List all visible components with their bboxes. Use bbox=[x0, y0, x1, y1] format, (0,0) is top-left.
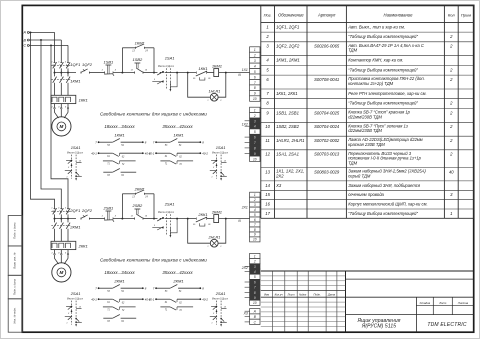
svg-text:S00704-0025: S00704-0025 bbox=[314, 110, 340, 115]
wire bbox=[207, 218, 214, 220]
svg-text:2SB1: 2SB1 bbox=[103, 205, 114, 210]
svg-text:1SB2, 2SB2: 1SB2, 2SB2 bbox=[276, 124, 299, 129]
svg-text:S00708-0041: S00708-0041 bbox=[314, 77, 339, 82]
wire bbox=[89, 72, 104, 74]
svg-text:40: 40 bbox=[449, 169, 454, 174]
contactor coil 2КМ1 bbox=[214, 215, 219, 223]
svg-text:40-1: 40-1 bbox=[149, 298, 155, 302]
svg-text:1QF1: 1QF1 bbox=[70, 62, 80, 67]
motor М1 bbox=[52, 117, 71, 136]
svg-text:1КК1: 1КК1 bbox=[79, 97, 88, 102]
svg-text:6: 6 bbox=[254, 136, 256, 140]
svg-text:d22мм/230В ТДМ: d22мм/230В ТДМ bbox=[348, 128, 382, 133]
signal lamp 1HLR1 bbox=[188, 73, 211, 98]
svg-text:3: 3 bbox=[254, 119, 256, 123]
svg-text:контакты 2з+2р) ТДМ: контакты 2з+2р) ТДМ bbox=[348, 81, 393, 86]
svg-text:14: 14 bbox=[265, 183, 270, 188]
svg-text:S00803-0029: S00803-0029 bbox=[314, 169, 340, 174]
svg-text:Дата: Дата bbox=[327, 292, 336, 296]
wire bbox=[207, 72, 214, 74]
svg-text:18хххх...34хххх: 18хххх...34хххх bbox=[104, 270, 135, 275]
svg-text:1Х1: 1Х1 bbox=[242, 68, 248, 72]
svg-text:Кол.уч: Кол.уч bbox=[275, 292, 284, 296]
svg-text:Контактор КМН, хар-ки см.: Контактор КМН, хар-ки см. bbox=[348, 58, 403, 63]
title block right part lines bbox=[346, 278, 474, 280]
thermal relay 1КК1 bbox=[51, 95, 76, 103]
svg-text:Стадия: Стадия bbox=[420, 301, 431, 305]
motor М2 bbox=[52, 263, 71, 282]
svg-text:Взам. инв. №: Взам. инв. № bbox=[13, 252, 17, 268]
thermal relay contact 1КК1 bbox=[195, 72, 197, 74]
svg-text:4: 4 bbox=[254, 270, 256, 274]
svg-text:Местн 0 Дист: Местн 0 Дист bbox=[67, 153, 83, 155]
svg-text:1: 1 bbox=[207, 100, 208, 102]
svg-text:2HLR1: 2HLR1 bbox=[207, 236, 220, 240]
svg-text:d22мм/230В ТДМ: d22мм/230В ТДМ bbox=[348, 114, 382, 119]
svg-text:40-1: 40-1 bbox=[91, 152, 97, 156]
svg-text:1SA1: 1SA1 bbox=[71, 145, 81, 150]
svg-text:Подп. и дата: Подп. и дата bbox=[13, 278, 17, 295]
svg-text:40-1: 40-1 bbox=[149, 152, 155, 156]
svg-text:1: 1 bbox=[266, 24, 268, 29]
svg-text:2Х2: 2Х2 bbox=[275, 173, 284, 178]
svg-text:положения I-0-II длинная ручка: положения I-0-II длинная ручка 1з+1р bbox=[348, 156, 421, 161]
svg-text:1: 1 bbox=[211, 177, 212, 179]
aux NC contact 1КМ1 71-72 bbox=[103, 160, 113, 162]
svg-text:Подп.: Подп. bbox=[314, 292, 321, 296]
pushbutton 1SB1 bbox=[104, 71, 106, 73]
wire bbox=[143, 218, 158, 220]
svg-text:Местн 0 Дист: Местн 0 Дист bbox=[212, 299, 228, 301]
svg-text:12: 12 bbox=[265, 152, 270, 157]
selector lower contact 1SA1 bbox=[152, 81, 163, 83]
thermal relay contact 2КК1 bbox=[195, 218, 197, 220]
aux NO contact 2КМ1 83-84 bbox=[103, 317, 112, 319]
svg-text:5: 5 bbox=[254, 130, 256, 134]
svg-text:1SA1: 1SA1 bbox=[165, 56, 175, 61]
thermal relay 2КК1 bbox=[51, 241, 76, 249]
svg-text:1SB1: 1SB1 bbox=[104, 59, 114, 64]
svg-text:35хххх...42хххх: 35хххх...42хххх bbox=[162, 270, 193, 275]
svg-text:3: 3 bbox=[254, 203, 256, 207]
wire bbox=[165, 72, 197, 74]
svg-text:1КМ1: 1КМ1 bbox=[114, 132, 124, 137]
svg-text:S00703-0013: S00703-0013 bbox=[314, 152, 340, 157]
svg-text:2QF2: 2QF2 bbox=[81, 208, 93, 213]
svg-text:1КК1, 2КК1: 1КК1, 2КК1 bbox=[276, 91, 298, 96]
aux NC contact 1КМ1 71-72 bbox=[160, 160, 170, 162]
svg-text:6: 6 bbox=[254, 218, 256, 222]
svg-text:2: 2 bbox=[253, 198, 256, 202]
svg-text:1SB2: 1SB2 bbox=[133, 57, 144, 62]
aux contact bridge 2КМ1 bbox=[121, 194, 123, 219]
svg-text:10: 10 bbox=[265, 124, 270, 129]
wire bbox=[143, 72, 158, 74]
svg-text:Наименование: Наименование bbox=[384, 12, 414, 17]
wire bbox=[113, 72, 135, 74]
svg-text:1: 1 bbox=[51, 62, 52, 64]
motor feeder wires bbox=[54, 104, 56, 108]
svg-text:1КМ1: 1КМ1 bbox=[135, 40, 145, 45]
svg-text:7: 7 bbox=[254, 81, 256, 85]
svg-text:S00702-0002: S00702-0002 bbox=[314, 138, 340, 143]
svg-text:15: 15 bbox=[265, 192, 270, 197]
svg-text:2КМ1: 2КМ1 bbox=[134, 186, 145, 191]
svg-text:Авт. Выкл.ВА47-29 1Р 1А 4,5кА: Авт. Выкл.ВА47-29 1Р 1А 4,5кА х-ка С bbox=[347, 43, 425, 48]
svg-text:2: 2 bbox=[253, 114, 256, 118]
svg-text:1: 1 bbox=[207, 246, 208, 248]
svg-text:Прим: Прим bbox=[461, 12, 471, 17]
svg-text:1SA1: 1SA1 bbox=[216, 145, 226, 150]
circuit breaker 1QF1 (3-pole) bbox=[54, 32, 56, 62]
svg-text:2КМ1: 2КМ1 bbox=[211, 209, 222, 214]
svg-text:4: 4 bbox=[254, 125, 256, 129]
contactor coil 1КМ1 bbox=[214, 69, 219, 77]
svg-text:S00704-0024: S00704-0024 bbox=[314, 124, 340, 129]
svg-text:“Таблицу Выбора комплектующей”: “Таблицу Выбора комплектующей” bbox=[348, 211, 418, 216]
svg-text:3: 3 bbox=[254, 59, 256, 63]
svg-text:Поз.: Поз. bbox=[264, 12, 272, 17]
svg-text:2: 2 bbox=[253, 54, 256, 58]
svg-text:1: 1 bbox=[66, 177, 67, 179]
svg-text:2КМ1: 2КМ1 bbox=[69, 224, 80, 229]
svg-text:Местн 0 Дист: Местн 0 Дист bbox=[212, 153, 228, 155]
svg-text:Листов: Листов bbox=[457, 301, 469, 305]
svg-text:4: 4 bbox=[254, 64, 256, 68]
svg-text:4: 4 bbox=[254, 208, 256, 212]
aux NC contact 2КМ1 71-72 bbox=[103, 306, 113, 308]
svg-text:S00206-0065: S00206-0065 bbox=[314, 44, 340, 49]
svg-text:6: 6 bbox=[254, 280, 256, 284]
contactor main contacts 1КМ1 bbox=[54, 72, 56, 74]
svg-text:Подп. и дата: Подп. и дата bbox=[13, 222, 17, 239]
svg-text:ТДМ: ТДМ bbox=[348, 48, 357, 53]
svg-text:А: А bbox=[23, 31, 27, 35]
circuit breaker 1QF2 (1-pole) bbox=[80, 72, 82, 74]
svg-text:1: 1 bbox=[66, 323, 67, 325]
svg-text:2Х1: 2Х1 bbox=[241, 206, 248, 210]
svg-text:1QF2: 1QF2 bbox=[82, 62, 93, 67]
svg-text:35хххх...42хххх: 35хххх...42хххх bbox=[162, 124, 193, 129]
svg-text:Инв. № подл.: Инв. № подл. bbox=[13, 307, 17, 323]
pushbutton 2SB2 bbox=[134, 217, 136, 219]
title block revision grid bbox=[272, 271, 274, 332]
svg-text:красная 230В ТДМ: красная 230В ТДМ bbox=[348, 142, 385, 147]
svg-text:1КК1: 1КК1 bbox=[198, 66, 207, 71]
svg-text:10: 10 bbox=[253, 301, 257, 305]
svg-text:17: 17 bbox=[265, 211, 270, 216]
svg-text:Обозначение: Обозначение bbox=[278, 12, 304, 17]
svg-text:2SA1: 2SA1 bbox=[70, 291, 81, 296]
svg-text:2QF1: 2QF1 bbox=[69, 208, 80, 213]
svg-text:Х3: Х3 bbox=[243, 311, 248, 315]
svg-text:10: 10 bbox=[253, 97, 257, 101]
svg-text:1HLR1: 1HLR1 bbox=[208, 90, 220, 94]
svg-text:1: 1 bbox=[254, 254, 256, 258]
svg-text:1КМ1: 1КМ1 bbox=[212, 63, 222, 68]
svg-text:1: 1 bbox=[254, 193, 256, 197]
svg-text:10: 10 bbox=[253, 157, 257, 161]
svg-text:ТДМ: ТДМ bbox=[348, 161, 357, 166]
svg-text:“Таблицу Выбора комплектующей”: “Таблицу Выбора комплектующей” bbox=[348, 101, 418, 106]
svg-text:1: 1 bbox=[254, 108, 256, 112]
svg-text:9: 9 bbox=[254, 92, 256, 96]
svg-text:1: 1 bbox=[254, 48, 256, 52]
svg-text:Корпус металлический ЩМП, хар-: Корпус металлический ЩМП, хар-ки см. bbox=[348, 202, 427, 207]
phase drop wires to circuit 2 bbox=[31, 32, 55, 209]
svg-text:9: 9 bbox=[254, 152, 256, 156]
svg-text:3: 3 bbox=[254, 265, 256, 269]
svg-text:8: 8 bbox=[254, 146, 256, 150]
svg-text:9: 9 bbox=[254, 296, 256, 300]
svg-text:7: 7 bbox=[254, 286, 256, 290]
svg-text:1КМ1, 2КМ1: 1КМ1, 2КМ1 bbox=[276, 58, 300, 63]
svg-text:сечением провода: сечением провода bbox=[348, 192, 384, 197]
svg-text:Артикул: Артикул bbox=[317, 12, 336, 17]
svg-text:16: 16 bbox=[265, 202, 270, 207]
svg-text:5: 5 bbox=[254, 70, 256, 74]
svg-text:серый ТДМ: серый ТДМ bbox=[348, 173, 371, 178]
phase bus wires bbox=[29, 31, 54, 33]
svg-text:Местн 0 Дист: Местн 0 Дист bbox=[67, 299, 83, 301]
svg-text:Авт. Выкл., тип и хар-ки см.: Авт. Выкл., тип и хар-ки см. bbox=[347, 24, 405, 29]
wire to N terminal bbox=[219, 218, 250, 220]
svg-text:8: 8 bbox=[254, 228, 256, 232]
svg-text:“Таблицу Выбора комплектующей”: “Таблицу Выбора комплектующей” bbox=[348, 67, 418, 72]
svg-text:1QF2, 2QF2: 1QF2, 2QF2 bbox=[276, 44, 300, 49]
svg-text:2Х2: 2Х2 bbox=[241, 266, 248, 270]
pushbutton 1SB2 bbox=[134, 71, 136, 73]
aux contact bridge 1КМ1 bbox=[121, 48, 123, 73]
svg-text:7: 7 bbox=[254, 223, 256, 227]
svg-text:2SB2: 2SB2 bbox=[132, 203, 144, 208]
svg-text:1QF1, 2QF1: 1QF1, 2QF1 bbox=[276, 24, 299, 29]
svg-text:7: 7 bbox=[254, 141, 256, 145]
circuit breaker 2QF2 (1-pole) bbox=[80, 218, 82, 220]
svg-text:Х3: Х3 bbox=[275, 183, 282, 188]
svg-text:2SA1: 2SA1 bbox=[164, 202, 175, 207]
svg-text:1КМ1: 1КМ1 bbox=[70, 78, 80, 83]
svg-text:1SA1, 2SA1: 1SA1, 2SA1 bbox=[276, 152, 299, 157]
svg-text:40-1: 40-1 bbox=[91, 298, 97, 302]
svg-text:№док: №док bbox=[299, 292, 307, 296]
left stamp boxes bbox=[8, 216, 22, 246]
svg-text:8: 8 bbox=[254, 86, 256, 90]
svg-text:Лист: Лист bbox=[287, 292, 296, 296]
svg-text:А: А bbox=[253, 310, 256, 314]
svg-text:5: 5 bbox=[254, 275, 256, 279]
svg-text:13: 13 bbox=[265, 169, 270, 174]
svg-text:Лист: Лист bbox=[438, 301, 447, 305]
svg-text:18хххх...34хххх: 18хххх...34хххх bbox=[104, 124, 135, 129]
svg-text:5: 5 bbox=[254, 213, 256, 217]
svg-text:1: 1 bbox=[211, 323, 212, 325]
svg-text:Реле РТН электротепловое, хар-: Реле РТН электротепловое, хар-ки см. bbox=[348, 91, 426, 96]
aux NC contact 2КМ1 71-72 bbox=[160, 306, 170, 308]
svg-text:1: 1 bbox=[450, 211, 452, 216]
svg-text:2КК1: 2КК1 bbox=[197, 212, 207, 217]
svg-text:2: 2 bbox=[253, 260, 256, 264]
svg-text:TDM ELECTRIC: TDM ELECTRIC bbox=[427, 322, 467, 328]
svg-text:Я(РУСМ) 5115: Я(РУСМ) 5115 bbox=[361, 324, 396, 330]
circuit breaker 2QF1 (3-pole) bbox=[54, 208, 56, 210]
svg-text:М: М bbox=[59, 124, 63, 129]
svg-text:2КМ1: 2КМ1 bbox=[172, 278, 183, 283]
svg-text:1: 1 bbox=[51, 208, 52, 210]
svg-text:Зажим наборный ЗНИ, подбираетс: Зажим наборный ЗНИ, подбирается bbox=[348, 183, 421, 188]
wire to N terminal bbox=[219, 72, 250, 74]
svg-text:“Таблицу Выбора комплектующей”: “Таблицу Выбора комплектующей” bbox=[348, 34, 418, 39]
svg-text:Местн 0 Дист: Местн 0 Дист bbox=[158, 212, 174, 214]
wire bbox=[113, 218, 135, 220]
svg-text:2КК1: 2КК1 bbox=[78, 243, 88, 248]
svg-text:М: М bbox=[59, 270, 63, 275]
svg-text:Местн 0 Дист: Местн 0 Дист bbox=[158, 66, 174, 68]
signal lamp 2HLR1 bbox=[188, 219, 211, 244]
wire control tap from breaker pole bbox=[55, 218, 77, 220]
wire bbox=[165, 218, 197, 220]
svg-text:10: 10 bbox=[253, 238, 257, 242]
svg-text:9: 9 bbox=[254, 233, 256, 237]
svg-text:11: 11 bbox=[265, 138, 269, 143]
selector lower contact 2SA1 bbox=[152, 227, 163, 229]
svg-text:Кол: Кол bbox=[448, 12, 455, 17]
svg-text:2КМ1: 2КМ1 bbox=[113, 278, 124, 283]
svg-text:40-2: 40-2 bbox=[202, 298, 208, 302]
svg-text:Свободные контакты для ящиков: Свободные контакты для ящиков с индексам… bbox=[100, 258, 207, 263]
specification table grid bbox=[261, 4, 474, 6]
svg-text:2SA1: 2SA1 bbox=[215, 291, 226, 296]
svg-text:1SB1, 2SB1: 1SB1, 2SB1 bbox=[276, 110, 299, 115]
svg-text:С: С bbox=[24, 44, 27, 48]
svg-text:Свободные контакты для ящиков: Свободные контакты для ящиков с индексам… bbox=[100, 112, 207, 117]
aux NO contact 1КМ1 83-84 bbox=[103, 171, 112, 173]
motor feeder wires bbox=[54, 250, 56, 254]
pushbutton 2SB1 bbox=[104, 217, 106, 219]
svg-text:1HLR1, 2HLR1: 1HLR1, 2HLR1 bbox=[276, 138, 304, 143]
contactor main contacts 2КМ1 bbox=[54, 218, 56, 220]
svg-text:Изм: Изм bbox=[264, 292, 269, 296]
title block bbox=[261, 270, 474, 272]
svg-text:6: 6 bbox=[254, 75, 256, 79]
wire control tap from breaker pole bbox=[55, 72, 77, 74]
svg-text:8: 8 bbox=[254, 291, 256, 295]
svg-text:1КМ1: 1КМ1 bbox=[173, 132, 183, 137]
svg-text:40-2: 40-2 bbox=[202, 152, 208, 156]
wire bbox=[89, 218, 104, 220]
